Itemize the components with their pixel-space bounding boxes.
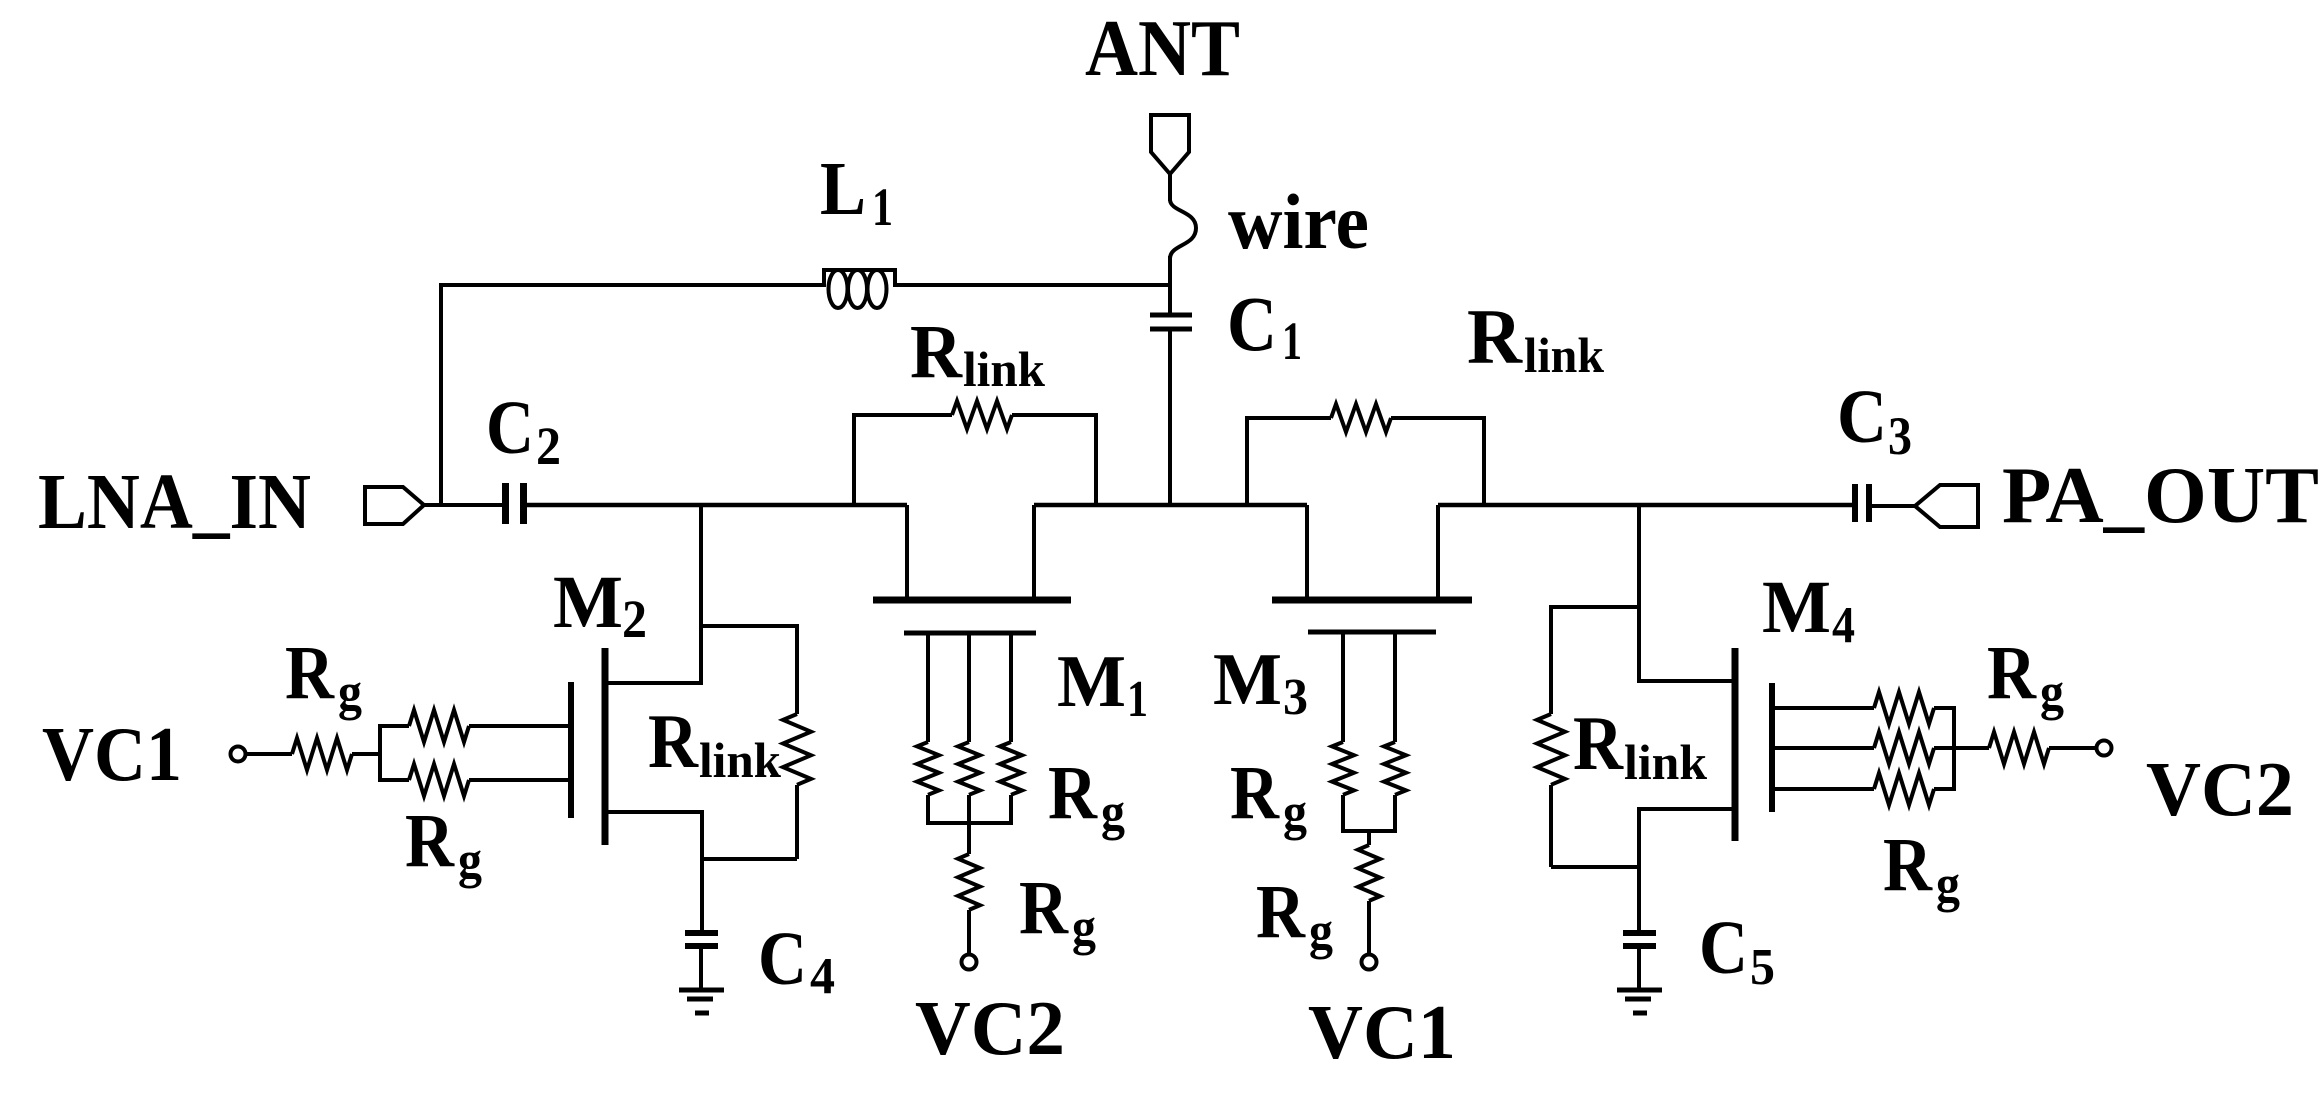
port LNA_IN <box>365 487 424 524</box>
terminal VC2 M4 <box>2097 741 2112 756</box>
terminal VC1 left <box>231 747 246 762</box>
wire M2 drain-to-bus <box>699 505 703 685</box>
transistor M3 source stub <box>1436 505 1440 597</box>
svg-text:2: 2 <box>536 416 561 476</box>
svg-text:R: R <box>1230 751 1280 835</box>
wire M2 top branch b <box>469 724 573 728</box>
label C5 <box>1699 906 1775 996</box>
label M3 <box>1213 639 1308 726</box>
label C2 <box>486 386 561 476</box>
wire C4-to-ground <box>699 946 703 990</box>
svg-text:M: M <box>1213 639 1282 721</box>
wire top horizontal <box>439 283 826 287</box>
label Rg M4 parallel <box>1883 823 1960 913</box>
svg-text:VC1: VC1 <box>42 711 182 797</box>
wire M4 source down <box>1637 807 1641 933</box>
wire riser LNA branch <box>439 285 443 505</box>
transistor M4 gate bar <box>1769 683 1775 812</box>
wire VC1-to-Rg <box>245 752 292 756</box>
wire C5-to-ground <box>1637 946 1641 990</box>
wire M1 Rg-to-VC2 <box>967 910 971 955</box>
svg-text:R: R <box>648 698 699 784</box>
wire M2 source down <box>700 810 704 933</box>
label M1 <box>1057 641 1148 728</box>
resistor Rg triple M4 <box>1874 692 1954 805</box>
wire ANT-to-bondwire <box>1168 172 1172 201</box>
svg-text:4: 4 <box>1832 597 1855 654</box>
capacitor C2 <box>506 483 524 524</box>
label C3 <box>1837 375 1912 466</box>
svg-text:M: M <box>1762 566 1831 649</box>
wire inductor-to-ANT-node <box>893 283 1172 287</box>
capacitor C5 <box>1623 933 1656 946</box>
transistor M4 gate branches <box>1772 708 1874 789</box>
transistor M4 drain line <box>1639 679 1738 683</box>
svg-text:3: 3 <box>1283 669 1308 726</box>
svg-text:VC2: VC2 <box>915 985 1065 1071</box>
svg-text:R: R <box>1987 631 2037 715</box>
svg-text:C: C <box>1227 280 1277 367</box>
inductor L1 <box>822 268 897 308</box>
wire C1-to-bus <box>1168 329 1172 505</box>
svg-text:g: g <box>338 664 362 721</box>
transistor M3 gate fingers <box>1343 632 1395 742</box>
svg-text:g: g <box>1309 903 1333 960</box>
svg-text:1: 1 <box>872 177 893 237</box>
transistor M1 gate fingers <box>928 633 1011 742</box>
transistor M1 channel plate <box>873 597 1071 604</box>
transistor M2 drain line <box>603 681 701 685</box>
capacitor C1 <box>1150 315 1192 329</box>
label Rg M2 parallel <box>405 799 482 889</box>
label M4 <box>1762 566 1855 654</box>
resistor Rg double M3 <box>1332 742 1406 831</box>
svg-text:g: g <box>1936 856 1960 913</box>
transistor M3 drain stub <box>1305 505 1309 597</box>
wire M3 gate join <box>1341 829 1397 833</box>
wire M4 join-to-Rg <box>1954 746 1989 750</box>
svg-text:4: 4 <box>810 948 835 1005</box>
svg-text:R: R <box>405 799 455 883</box>
label PA_OUT <box>2002 452 2319 540</box>
svg-text:R: R <box>1883 823 1933 907</box>
node ANT junction <box>0 0 1 1</box>
svg-text:VC1: VC1 <box>1308 989 1456 1075</box>
transistor M4 source line <box>1639 807 1738 811</box>
wire LNAport-to-C2 <box>424 503 504 507</box>
svg-text:C: C <box>486 386 534 470</box>
label Rg M2 single <box>285 631 362 721</box>
resistor Rlink M2 <box>699 624 811 859</box>
port ANT <box>1151 115 1189 174</box>
ground C4 <box>679 990 724 1013</box>
label VC2 M1 <box>915 985 1065 1071</box>
svg-text:link: link <box>699 732 781 788</box>
transistor M3 gate plate <box>1308 630 1436 635</box>
wire M3 Rg-to-VC1 <box>1367 901 1371 955</box>
transistor M1 gate plate <box>904 631 1036 636</box>
ground C5 <box>1617 990 1662 1013</box>
wire Rg-to-split M2 <box>352 752 382 756</box>
label VC1 M3 <box>1308 989 1456 1075</box>
wire C3-to-PAport <box>1869 504 1916 508</box>
svg-text:g: g <box>1101 784 1125 841</box>
label Rg M1 parallel <box>1048 751 1125 841</box>
svg-text:link: link <box>1624 734 1707 790</box>
wire M1 join-to-Rg <box>967 823 971 854</box>
wire M4 drain-to-bus <box>1637 505 1641 683</box>
svg-text:C: C <box>758 917 807 1001</box>
svg-text:1: 1 <box>1282 311 1302 371</box>
label Rg M4 single <box>1987 631 2064 721</box>
svg-text:5: 5 <box>1750 939 1775 996</box>
wire M2 split vertical <box>378 724 382 782</box>
wire M2 bottom branch b <box>469 778 573 782</box>
terminal VC1 M3 <box>1362 955 1377 970</box>
label Rlink M4 <box>1573 700 1707 790</box>
wire M4 Rg-to-VC2 <box>2049 746 2096 750</box>
transistor M4 channel bar <box>1732 648 1739 841</box>
resistor Rg bottom M2 <box>409 764 469 796</box>
svg-text:g: g <box>458 832 482 889</box>
wire M2 top branch <box>380 724 409 728</box>
resistor Rg single M3 <box>1358 845 1380 901</box>
capacitor C4 <box>685 933 718 946</box>
svg-text:R: R <box>1467 293 1524 380</box>
wire M2 bottom branch <box>380 778 409 782</box>
svg-text:g: g <box>1072 899 1096 956</box>
label Rlink bridge M3 <box>1467 293 1604 383</box>
resistor Rg single M4 <box>1989 732 2049 764</box>
svg-text:g: g <box>1283 784 1307 841</box>
label C1 <box>1227 280 1302 371</box>
svg-text:wire: wire <box>1228 178 1369 265</box>
transistor M3 channel plate <box>1272 597 1472 604</box>
svg-text:C: C <box>1699 906 1748 990</box>
label L1 <box>820 147 893 237</box>
wire ANT-node-to-C1 <box>1168 283 1172 315</box>
svg-text:R: R <box>1019 866 1069 950</box>
wire M3 join-to-Rg <box>1367 831 1371 845</box>
svg-text:R: R <box>910 310 963 394</box>
label wire <box>1228 178 1369 265</box>
label ANT <box>1085 3 1240 93</box>
svg-text:M: M <box>1057 641 1126 723</box>
transistor M2 channel bar <box>602 648 609 845</box>
wire bus M3source-to-C3 <box>1438 503 1853 508</box>
svg-text:R: R <box>1048 751 1098 835</box>
svg-text:R: R <box>1573 700 1624 786</box>
svg-text:L: L <box>820 147 866 231</box>
svg-text:link: link <box>1524 327 1604 383</box>
terminal VC2 M1 <box>962 955 977 970</box>
svg-text:VC2: VC2 <box>2146 746 2294 832</box>
resistor Rlink M4 <box>1537 605 1641 867</box>
svg-text:C: C <box>1837 375 1887 459</box>
svg-text:2: 2 <box>622 589 647 649</box>
resistor Rg single M1 <box>958 854 980 910</box>
resistor Rg single M2 <box>292 738 352 770</box>
label Rg M3 single <box>1256 870 1333 960</box>
label Rg M1 single <box>1019 866 1096 956</box>
label VC1 left <box>42 711 182 797</box>
wire bus M1source-to-M3drain <box>1034 503 1307 508</box>
label Rlink bridge M1 <box>910 310 1045 397</box>
svg-text:1: 1 <box>1127 671 1148 728</box>
wire M4 gate join <box>1952 706 1956 791</box>
label M2 <box>553 561 647 649</box>
port PA_OUT <box>1915 485 1978 527</box>
transistor M1 drain stub <box>905 505 909 597</box>
label Rlink M2 <box>648 698 781 788</box>
svg-text:g: g <box>2040 664 2064 721</box>
svg-text:link: link <box>963 341 1045 397</box>
label C4 <box>758 917 835 1005</box>
svg-text:ANT: ANT <box>1085 3 1240 93</box>
label Rg M3 parallel <box>1230 751 1307 841</box>
bond wire <box>1170 200 1196 258</box>
svg-text:R: R <box>285 631 335 715</box>
wire bondwire-to-node <box>1168 256 1172 288</box>
transistor M2 gate bar <box>568 682 574 818</box>
resistor Rlink bridge M3 <box>1245 404 1486 505</box>
svg-text:PA_OUT: PA_OUT <box>2002 452 2319 540</box>
wire M1 gate join <box>926 821 1013 825</box>
svg-text:M: M <box>553 561 623 644</box>
transistor M1 source stub <box>1032 505 1036 597</box>
svg-text:3: 3 <box>1888 406 1912 466</box>
resistor Rg top M2 <box>409 710 469 742</box>
wire C2-to-M1drain <box>523 503 907 508</box>
label VC2 right <box>2146 746 2294 832</box>
transistor M2 source line <box>603 810 703 814</box>
capacitor C3 <box>1855 484 1869 522</box>
resistor Rlink bridge M1 <box>852 401 1098 505</box>
label LNA_IN <box>38 459 311 546</box>
svg-text:R: R <box>1256 870 1306 954</box>
svg-text:LNA_IN: LNA_IN <box>38 459 311 546</box>
resistor Rg triple M1 <box>917 742 1022 823</box>
